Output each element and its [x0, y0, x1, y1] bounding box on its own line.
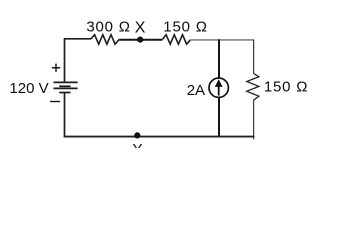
battery V1 long plate 2: [54, 87, 78, 89]
battery V1 minus sign: [50, 101, 60, 103]
svg-text:2A: 2A: [187, 82, 205, 99]
svg-text:120 V: 120 V: [9, 80, 48, 97]
resistor 150 Ω (right vertical zigzag): [247, 73, 259, 100]
battery V1 plus sign: [52, 64, 60, 72]
resistor 300 Ω (top left zigzag): [91, 35, 119, 44]
battery V1 long plate 1: [54, 81, 78, 83]
svg-text:X: X: [135, 20, 146, 37]
current source arrowhead (up): [215, 79, 223, 87]
wire current-source branch upper: [218, 39, 220, 78]
svg-text:150 Ω: 150 Ω: [264, 79, 308, 96]
current source 2A (circle): [209, 78, 228, 97]
wire between node X and 150Ω: [140, 39, 163, 41]
svg-text:300 Ω: 300 Ω: [86, 19, 130, 36]
wire top-left horizontal: [65, 38, 92, 40]
wire between 300Ω and node X: [119, 39, 140, 41]
wire left vertical upper: [64, 38, 66, 82]
wire current-source branch lower: [218, 97, 220, 137]
svg-text:150 Ω: 150 Ω: [163, 19, 207, 36]
node Y junction dot: [134, 132, 140, 138]
wire left vertical lower: [64, 93, 66, 138]
battery V1 short plate 1: [59, 85, 70, 87]
svg-text:Y: Y: [133, 141, 143, 148]
wire right branch upper (thin): [253, 40, 255, 74]
battery V1 short plate 2: [59, 92, 70, 94]
current source arrow tail: [218, 85, 220, 96]
wire bottom horizontal: [64, 136, 255, 138]
wire top-right horizontal (thin gray): [190, 39, 254, 41]
wire right branch lower (thin): [253, 100, 255, 139]
resistor 150 Ω (top zigzag): [163, 35, 191, 44]
node X junction dot: [137, 37, 143, 43]
